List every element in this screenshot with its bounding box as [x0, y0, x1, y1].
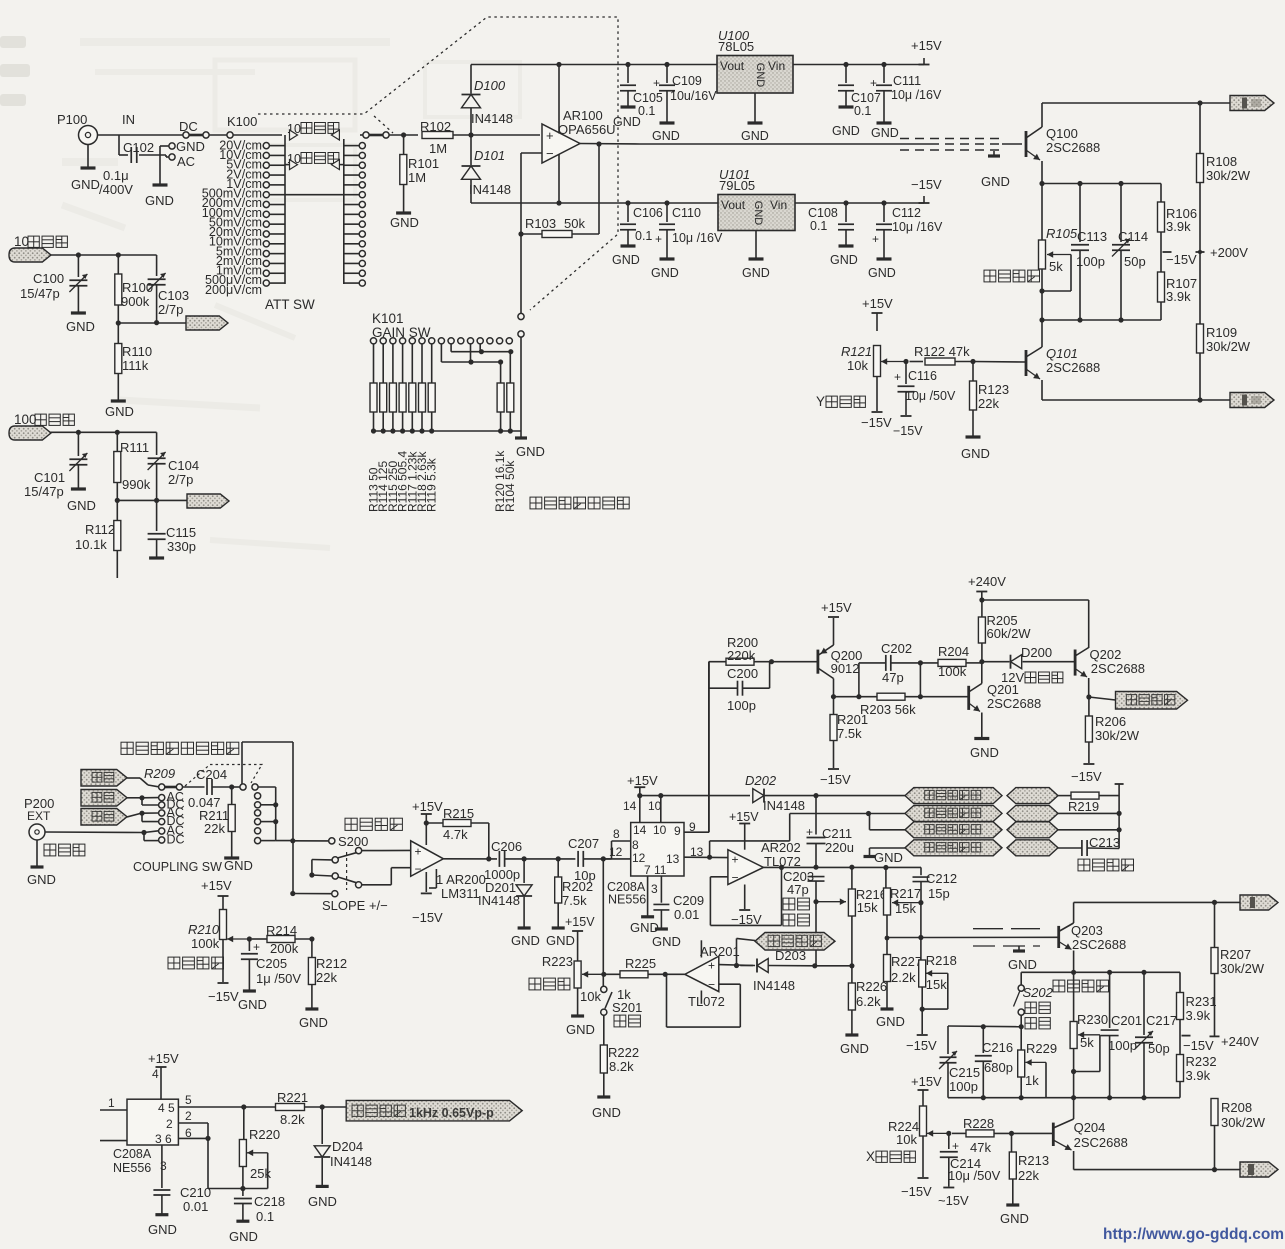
- svg-text:+15V: +15V: [201, 878, 232, 893]
- svg-text:5k: 5k: [1049, 259, 1063, 274]
- connector blanking pulse zenghuimaichong: [1116, 692, 1188, 710]
- node C101: [76, 430, 81, 435]
- svg-text:6: 6: [185, 1126, 192, 1140]
- svg-text:C204: C204: [196, 767, 227, 782]
- capacitor C214 10u/50V: [948, 1133, 950, 1149]
- resistor R206 30k/2W: [1088, 697, 1090, 716]
- label trigger level chufadianping: [168, 957, 224, 969]
- svg-text:Q202: Q202: [1090, 647, 1122, 662]
- capacitor C105 0.1: [627, 65, 629, 84]
- capacitor C206 1000p: [499, 851, 504, 867]
- svg-text:IN4148: IN4148: [469, 182, 511, 197]
- node R101/R102: [401, 132, 406, 137]
- svg-text:R108: R108: [1206, 154, 1237, 169]
- svg-text:47p: 47p: [882, 670, 904, 685]
- wire C203 down: [815, 902, 817, 966]
- link verticals k101: [470, 344, 472, 362]
- pot R210 100k trigger level: [220, 910, 227, 940]
- contact S200: [329, 838, 335, 844]
- svg-text:4.7k: 4.7k: [443, 827, 468, 842]
- pot R223 stability: [574, 961, 581, 988]
- U100 ground pin: [754, 93, 756, 122]
- svg-text:−15V: −15V: [820, 772, 851, 787]
- ground below R226: [845, 1033, 858, 1036]
- node pin5 R220: [241, 1104, 246, 1109]
- ground below R123: [966, 435, 981, 438]
- -15V tap R231/R232: [1182, 1035, 1191, 1037]
- svg-text:GND: GND: [652, 934, 681, 949]
- wire AR100 output to Q100 base: [640, 143, 930, 145]
- AR202 inverting input feedback loop: [710, 876, 728, 878]
- svg-text:+: +: [415, 845, 422, 859]
- svg-text:C107: C107: [851, 91, 881, 105]
- ground below Q201: [974, 737, 989, 740]
- connector lower line xiaxian: [81, 809, 127, 826]
- svg-text:+15V: +15V: [821, 600, 852, 615]
- svg-text:C115: C115: [166, 525, 196, 540]
- svg-text:C114: C114: [1118, 229, 1148, 244]
- transistor Q203 2SC2688: [1057, 926, 1060, 948]
- coax dashes X: [973, 928, 1040, 930]
- trimmer C217 50p: [1143, 972, 1145, 1035]
- +200V tap: [1196, 251, 1205, 253]
- -15V below R121: [872, 411, 883, 413]
- svg-text:22k: 22k: [978, 396, 999, 411]
- resistor R123 22k: [972, 362, 974, 382]
- R217 wiper from C212: [892, 902, 921, 904]
- svg-text:R223: R223: [542, 954, 573, 969]
- node C205: [247, 936, 252, 941]
- U101 ground pin: [755, 231, 757, 259]
- svg-text:GND: GND: [754, 63, 766, 88]
- trimmer C114 50p: [1118, 181, 1123, 186]
- node C212 bottom: [918, 900, 923, 905]
- svg-text:9012: 9012: [831, 661, 860, 676]
- holdoff node line: [812, 963, 817, 968]
- svg-text:GND: GND: [651, 266, 679, 280]
- svg-text:R110: R110: [122, 344, 152, 359]
- svg-text:15/47p: 15/47p: [24, 484, 64, 499]
- capacitor C109 10u/16V electrolytic: [666, 65, 668, 84]
- resistor R208 30k/2W: [1211, 1099, 1218, 1126]
- wire P100 to switch: [98, 134, 183, 136]
- wire 100x network top: [50, 431, 157, 433]
- resistor R232 3.9k: [1177, 1055, 1184, 1082]
- U100 output rail to +15V: [793, 64, 924, 66]
- svg-text:10.1k: 10.1k: [75, 537, 107, 552]
- svg-text:+: +: [653, 76, 660, 90]
- svg-text:C101: C101: [34, 470, 65, 485]
- wire to C207: [558, 858, 575, 860]
- ground tap on output line: [885, 868, 887, 889]
- resistor R221 8.2k: [244, 1106, 276, 1108]
- wire EXT to contacts: [45, 831, 144, 834]
- selector contact b: [252, 784, 258, 790]
- svg-text:22k: 22k: [204, 821, 225, 836]
- coupling switch contact column: [159, 784, 165, 790]
- svg-text:GND: GND: [238, 997, 267, 1012]
- capacitor C107 0.1: [845, 65, 847, 84]
- resistor R100 900k: [117, 255, 119, 274]
- svg-text:10μ /50V: 10μ /50V: [948, 1168, 1001, 1183]
- capacitor C106 0.1: [627, 203, 629, 222]
- attenuator block 2 arrows: [285, 164, 289, 166]
- wire S201 to R222: [603, 1015, 605, 1045]
- transistor Q101 2SC2688: [1041, 320, 1043, 347]
- wire throw1 to + input: [362, 849, 411, 851]
- svg-text:3.9k: 3.9k: [1186, 1068, 1211, 1083]
- svg-text:−15V: −15V: [412, 910, 443, 925]
- svg-text:2SC2688: 2SC2688: [987, 696, 1041, 711]
- expand network top bus: [948, 1025, 1021, 1028]
- connector mid 100x output: [187, 494, 229, 508]
- svg-text:0.1: 0.1: [810, 219, 827, 233]
- switch K100 DC contact: [183, 132, 189, 138]
- svg-text:+: +: [253, 940, 260, 954]
- svg-text:R212: R212: [316, 956, 347, 971]
- +15V rail to D202: [640, 795, 750, 797]
- svg-text:C201: C201: [1111, 1013, 1142, 1028]
- svg-text:R231: R231: [1186, 994, 1217, 1009]
- svg-text:13: 13: [666, 852, 680, 866]
- svg-text:0.1μ: 0.1μ: [103, 168, 129, 183]
- pin6 wire: [178, 1137, 208, 1139]
- node R204/R205/D200: [979, 659, 984, 664]
- +15V terminal: [919, 64, 930, 66]
- resistor R120 16.1k: [500, 362, 502, 383]
- svg-text:3.9k: 3.9k: [1166, 289, 1191, 304]
- IC C208A NE556 cal half: [127, 1099, 178, 1145]
- svg-text:GND: GND: [832, 124, 860, 138]
- ATT switch contact rows: [263, 143, 269, 149]
- capacitor C204 0.047: [183, 786, 205, 788]
- C202 branch vertical: [858, 663, 860, 697]
- svg-text:0.01: 0.01: [674, 907, 699, 922]
- svg-text:AC: AC: [177, 154, 195, 169]
- svg-text:/400V: /400V: [99, 182, 133, 197]
- row3 wire: [869, 813, 870, 815]
- op-amp AR201 TL072 (reversed): [685, 956, 719, 991]
- AR201 + input wire: [719, 964, 755, 967]
- pin7 ground: [647, 876, 649, 916]
- svg-text:−15V: −15V: [893, 424, 923, 438]
- svg-text:Vout: Vout: [720, 59, 745, 73]
- svg-text:1k: 1k: [1025, 1073, 1039, 1088]
- svg-text:0.1: 0.1: [854, 104, 871, 118]
- svg-text:330p: 330p: [167, 539, 196, 554]
- svg-text:AR201: AR201: [700, 944, 740, 959]
- svg-text:GND: GND: [27, 872, 56, 887]
- svg-text:10k: 10k: [896, 1132, 917, 1147]
- svg-text:GND: GND: [981, 174, 1010, 189]
- node R220 bottom: [240, 1186, 245, 1191]
- Y- rail: [1042, 102, 1230, 104]
- pin2 wire: [178, 1122, 208, 1124]
- svg-text:GND: GND: [840, 1041, 869, 1056]
- svg-text:C100: C100: [33, 271, 64, 286]
- svg-text:NE556: NE556: [113, 1161, 151, 1175]
- trimmer capacitor C101 15/47p: [77, 432, 79, 456]
- connector cal signal jiaozhunxinhao: [346, 1100, 522, 1121]
- wire to holdoff connector: [736, 938, 738, 965]
- svg-text:+15V: +15V: [627, 773, 658, 788]
- svg-text:−15V: −15V: [1071, 769, 1102, 784]
- svg-text:GND: GND: [652, 129, 680, 143]
- svg-text:C217: C217: [1146, 1013, 1177, 1028]
- node C108: [843, 200, 848, 205]
- svg-text:−15V: −15V: [906, 1038, 937, 1053]
- svg-text:+240V: +240V: [968, 574, 1006, 589]
- svg-text:30k/2W: 30k/2W: [1220, 961, 1265, 976]
- label gain cal X zengyijiaozhun: [1053, 980, 1109, 992]
- node C105: [625, 62, 630, 67]
- svg-text:10: 10: [14, 234, 29, 249]
- resistor R103 50k: [518, 231, 523, 236]
- node C111: [881, 62, 886, 67]
- wire to C100/R100: [50, 254, 157, 256]
- svg-text:680p: 680p: [984, 1060, 1013, 1075]
- capacitor C113 100p: [1077, 181, 1082, 186]
- row4 wire to ground: [870, 847, 906, 849]
- R229 wiper: [1026, 1061, 1047, 1063]
- +15V for Q200: [833, 618, 835, 645]
- gain switch feed wire: [520, 234, 522, 313]
- svg-text:OPA656U: OPA656U: [558, 122, 616, 137]
- svg-text:GND: GND: [868, 266, 896, 280]
- contact AC (input coupling): [169, 154, 175, 160]
- svg-text:1 AR200: 1 AR200: [436, 872, 486, 887]
- svg-text:10μ /16V: 10μ /16V: [891, 88, 942, 102]
- svg-text:−: −: [415, 862, 422, 876]
- capacitor C211 220u: [815, 796, 817, 835]
- trimmer capacitor C103 2/7p: [156, 255, 158, 276]
- resistor R227 2.2k: [886, 938, 888, 955]
- resistor R204 100k: [920, 662, 938, 664]
- svg-text:C215: C215: [949, 1065, 980, 1080]
- svg-text:TL072: TL072: [688, 994, 725, 1009]
- wire attenuator to R102: [363, 132, 369, 138]
- svg-text:R204: R204: [938, 644, 969, 659]
- label timing capacitor dingshidianrong: [1078, 859, 1134, 871]
- svg-text:−15V: −15V: [1183, 1038, 1214, 1053]
- transistor Q100 2SC2688: [1025, 131, 1028, 157]
- pot R121 10k Y position: [874, 346, 881, 377]
- capacitor C212 15p: [920, 867, 922, 875]
- node C214: [946, 1131, 951, 1136]
- wire to Q101 base: [973, 361, 1026, 364]
- svg-text:D204: D204: [332, 1139, 363, 1154]
- svg-text:IN4148: IN4148: [478, 893, 520, 908]
- svg-text:R119 5.3k: R119 5.3k: [425, 457, 439, 512]
- resistor R104 50k: [509, 352, 511, 383]
- svg-text:+: +: [732, 853, 739, 867]
- svg-text:C106: C106: [633, 206, 663, 220]
- svg-text:2.2k: 2.2k: [891, 970, 916, 985]
- Y+ rail: [1042, 399, 1230, 401]
- svg-text:C113: C113: [1077, 229, 1107, 244]
- svg-text:IN: IN: [122, 112, 135, 127]
- svg-text:C205: C205: [256, 956, 287, 971]
- diode D201 1N4148: [523, 859, 525, 883]
- connector power source dianyuan: [81, 770, 127, 787]
- svg-text:C216: C216: [982, 1040, 1013, 1055]
- svg-text:15k: 15k: [895, 901, 916, 916]
- svg-text:S202: S202: [1023, 985, 1054, 1000]
- wire C102 to AC contact: [165, 155, 167, 157]
- svg-text:D203: D203: [775, 948, 806, 963]
- pot R220 25k: [243, 1107, 245, 1140]
- svg-text:+15V: +15V: [729, 810, 759, 824]
- svg-text:R104 50k: R104 50k: [503, 460, 517, 512]
- svg-text:100p: 100p: [949, 1079, 978, 1094]
- svg-text:GND: GND: [176, 139, 205, 154]
- svg-text:8.2k: 8.2k: [280, 1112, 305, 1127]
- svg-text:+240V: +240V: [1221, 1034, 1259, 1049]
- svg-text:C210: C210: [180, 1185, 211, 1200]
- svg-text:GND: GND: [299, 1015, 328, 1030]
- pot R230 5k: [1073, 972, 1075, 1022]
- op-amp AR202 TL072: [728, 850, 764, 885]
- node C116: [903, 359, 908, 364]
- resistor R211 22k: [231, 787, 233, 805]
- svg-text:R219: R219: [1068, 799, 1099, 814]
- node R123: [970, 359, 975, 364]
- resistor R202 7.5k: [557, 859, 559, 877]
- svg-text:GND: GND: [830, 253, 858, 267]
- trimmer capacitor C100 15/47p: [77, 255, 79, 277]
- svg-text:LM311: LM311: [441, 886, 480, 901]
- svg-text:+15V: +15V: [911, 1074, 942, 1089]
- svg-text:GND: GND: [876, 1014, 905, 1029]
- node D204: [320, 1104, 325, 1109]
- capacitor C200 100p in parallel: [708, 662, 710, 689]
- capacitor C110 10u/16V: [666, 203, 668, 222]
- timing connectors right column: [1007, 788, 1058, 804]
- node pin12: [601, 856, 606, 861]
- label sweep length saomiao changdu: [783, 898, 809, 910]
- pot R229 1k: [1020, 1027, 1022, 1050]
- svg-text:7.5k: 7.5k: [562, 893, 587, 908]
- resistor R108 30k/2W: [1199, 103, 1201, 154]
- svg-text:GND: GND: [612, 253, 640, 267]
- attenuator block 1 arrows: [290, 130, 298, 140]
- svg-text:D200: D200: [1021, 645, 1052, 660]
- node R200/C200 to base: [769, 659, 774, 664]
- resistor R106 3.9k: [1160, 184, 1162, 203]
- svg-text:3: 3: [160, 1159, 167, 1173]
- connector P200 EXT trigger: [29, 824, 45, 840]
- gain switch lower contact: [518, 331, 524, 337]
- svg-text:10μ /50V: 10μ /50V: [905, 389, 956, 403]
- svg-text:9: 9: [674, 824, 681, 838]
- svg-text:R214: R214: [266, 923, 297, 938]
- node C109: [664, 62, 669, 67]
- gain bus bottom: [374, 430, 522, 432]
- AR200 output wire: [443, 858, 497, 860]
- pin1 wire: [100, 1109, 127, 1111]
- svg-text:12: 12: [609, 845, 623, 859]
- svg-text:10μ /16V: 10μ /16V: [892, 220, 943, 234]
- svg-text:X: X: [866, 1149, 875, 1164]
- svg-text:GND: GND: [145, 193, 174, 208]
- attenuator column bus 2: [343, 139, 345, 284]
- svg-text:R203 56k: R203 56k: [860, 702, 916, 717]
- ground below R110: [111, 399, 126, 402]
- S201 blade: [605, 992, 612, 1009]
- svg-text:http://www.go-gddq.com: http://www.go-gddq.com: [1103, 1226, 1284, 1243]
- svg-text:10k: 10k: [580, 989, 601, 1004]
- S202 to expand cap bus: [1020, 1015, 1022, 1026]
- resistor R102 1M: [422, 132, 453, 139]
- svg-text:D202: D202: [745, 773, 777, 788]
- svg-text:R121: R121: [841, 344, 872, 359]
- contact S201 upper: [601, 986, 607, 992]
- AR100 V- pin: [558, 155, 560, 204]
- resistor R111 990k: [116, 432, 118, 451]
- svg-text:10: 10: [648, 799, 662, 813]
- svg-text:15k: 15k: [857, 900, 878, 915]
- svg-text:R230: R230: [1077, 1012, 1108, 1027]
- ground below R101: [396, 211, 411, 214]
- timing bus right vertical: [1118, 784, 1120, 849]
- svg-text:220u: 220u: [825, 840, 854, 855]
- svg-text:GND: GND: [592, 1105, 621, 1120]
- resistor R207 30k/2W: [1214, 902, 1216, 948]
- feedback wire to inverting input: [521, 152, 542, 154]
- pot R218 15k: [920, 938, 922, 961]
- svg-text:GND: GND: [229, 1229, 258, 1244]
- connector Y+ output: [1230, 393, 1274, 408]
- svg-text:C111: C111: [893, 74, 921, 88]
- svg-text:5: 5: [185, 1093, 192, 1107]
- dashed hybrid outline: [258, 17, 618, 310]
- svg-text:K100: K100: [227, 114, 257, 129]
- svg-text:−: −: [732, 871, 739, 885]
- resistor R222 8.2k: [600, 1045, 607, 1073]
- pin 11/3 capacitor C209 0.01: [660, 876, 662, 903]
- svg-text:0.1: 0.1: [635, 229, 652, 243]
- svg-text:3 6: 3 6: [155, 1132, 172, 1146]
- R223 wiper: [582, 973, 604, 975]
- svg-text:R123: R123: [978, 382, 1009, 397]
- connector holdoff RC shiyizurong: [755, 933, 835, 951]
- wire with wiper contacts: [189, 134, 203, 137]
- node C107: [843, 62, 848, 67]
- svg-text:15k: 15k: [926, 977, 947, 992]
- capacitor C213 timing: [1058, 847, 1082, 849]
- svg-text:2SC2688: 2SC2688: [1046, 360, 1100, 375]
- svg-text:2SC2688: 2SC2688: [1074, 1135, 1128, 1150]
- svg-text:U100: U100: [718, 28, 750, 43]
- through wire 500mV range: [269, 194, 359, 196]
- connector X- output: [1240, 1162, 1278, 1177]
- svg-text:R218: R218: [926, 953, 957, 968]
- svg-text:D100: D100: [474, 78, 506, 93]
- svg-text:Y: Y: [816, 394, 825, 409]
- svg-text:GND: GND: [630, 920, 659, 935]
- node C202/R204: [918, 660, 923, 665]
- svg-text:2: 2: [166, 1117, 173, 1131]
- svg-text:1μ /50V: 1μ /50V: [256, 971, 301, 986]
- svg-text:7.5k: 7.5k: [837, 726, 862, 741]
- capacitor C201 100p: [1109, 972, 1111, 1028]
- slope pole 3: [332, 891, 338, 897]
- svg-text:−15V: −15V: [911, 177, 942, 192]
- ground of coupling switch: [159, 146, 161, 184]
- wires into NE556 pins 8/12: [611, 841, 613, 859]
- svg-text:Q203: Q203: [1071, 923, 1103, 938]
- svg-text:1kHz 0.65Vp-p: 1kHz 0.65Vp-p: [409, 1106, 494, 1120]
